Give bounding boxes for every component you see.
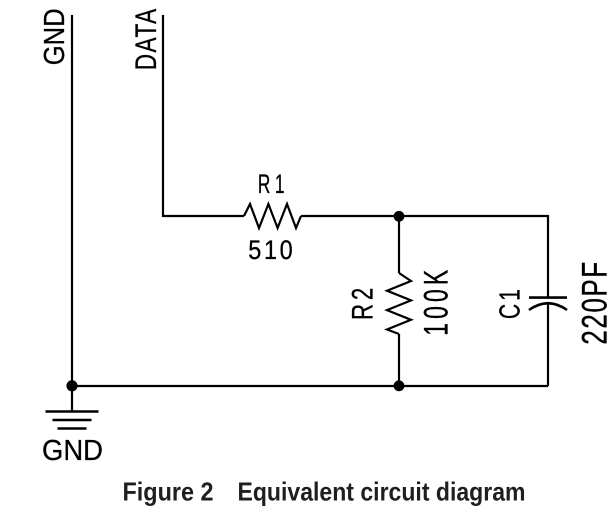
svg-text:100K: 100K <box>418 266 456 336</box>
svg-text:DATA: DATA <box>130 7 163 70</box>
resistor R2 <box>387 273 411 334</box>
svg-text:C1: C1 <box>495 286 527 319</box>
svg-text:R1: R1 <box>258 169 289 199</box>
node junction GND rail bottom <box>66 380 77 391</box>
svg-text:510: 510 <box>248 235 295 265</box>
capacitor C1 top plate <box>529 296 567 299</box>
wire GND rail vertical <box>71 15 73 386</box>
wire C1 bottom to bottom rail <box>547 304 549 387</box>
wire DATA rail vertical and horizontal to R1 <box>163 15 244 216</box>
ground symbol <box>46 412 99 429</box>
svg-text:GND: GND <box>39 8 71 65</box>
capacitor C1 curved bottom plate <box>529 303 567 310</box>
svg-text:GND: GND <box>42 435 103 467</box>
svg-text:Equivalent circuit diagram: Equivalent circuit diagram <box>238 477 526 507</box>
wire bottom rail <box>72 385 548 387</box>
node junction R2 bottom <box>394 380 405 391</box>
svg-text:Figure 2: Figure 2 <box>123 477 214 507</box>
wire R2 top stub <box>398 216 400 273</box>
wire R2 bottom stub <box>398 334 400 386</box>
svg-text:220PF: 220PF <box>576 260 615 345</box>
svg-text:R2: R2 <box>347 284 380 320</box>
resistor R1 <box>244 204 301 228</box>
node junction R1/R2 top <box>394 211 405 222</box>
wire ground stub <box>71 386 73 411</box>
wire R1 to top-right corner and down to C1 <box>301 216 548 298</box>
